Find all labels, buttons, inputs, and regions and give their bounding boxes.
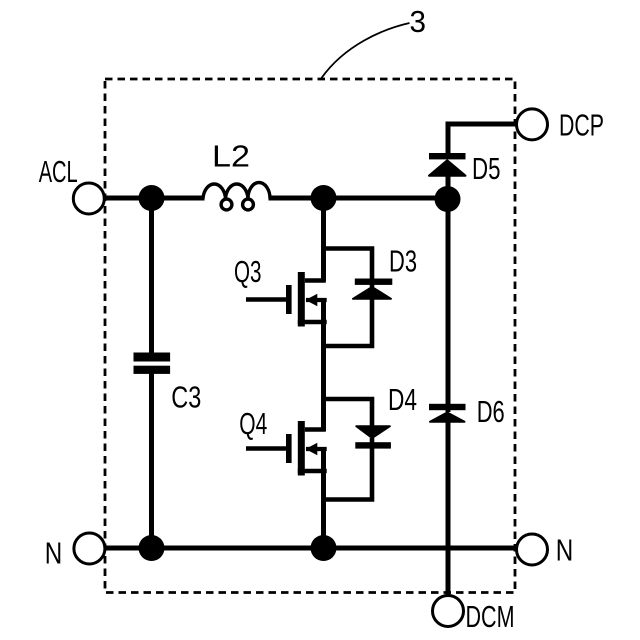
svg-text:N: N xyxy=(45,537,63,571)
svg-text:3: 3 xyxy=(410,5,427,39)
svg-text:D5: D5 xyxy=(472,152,501,186)
wire: Q4 source rail to bottom wire xyxy=(321,449,326,549)
wire: Q3 drain rail xyxy=(321,198,326,281)
capacitor C3 xyxy=(134,353,171,374)
wire: D5 to node C xyxy=(446,175,451,198)
svg-text:Q4: Q4 xyxy=(239,407,267,441)
node D (C3 bottom junction) xyxy=(139,535,165,561)
svg-text:C3: C3 xyxy=(171,381,201,415)
inductor L2 xyxy=(203,183,270,210)
svg-text:L2: L2 xyxy=(212,140,250,174)
wire: node C to D6 xyxy=(446,198,451,412)
diode D3 xyxy=(353,279,392,299)
leader line to label 3 xyxy=(322,23,410,78)
wire: Q3 source to Q4 drain rail xyxy=(321,300,326,432)
diode D4 loop wiring xyxy=(324,399,373,500)
node E (bridge bottom junction) xyxy=(311,535,337,561)
transistor Q3 xyxy=(246,272,327,327)
bottom wire xyxy=(105,546,517,551)
svg-text:DCP: DCP xyxy=(559,109,604,143)
wire: ACL to inductor L2 xyxy=(104,196,205,201)
node C (D5/D6 junction) xyxy=(435,186,461,212)
svg-text:DCM: DCM xyxy=(466,600,515,634)
diode D6 xyxy=(429,404,466,422)
terminal DCM xyxy=(433,596,464,627)
terminal N right xyxy=(517,534,548,565)
terminal DCP xyxy=(517,109,548,140)
wire: C3 to bottom wire xyxy=(149,373,154,548)
diode D4 xyxy=(355,426,391,448)
svg-text:D6: D6 xyxy=(477,395,505,429)
diode D5 xyxy=(429,153,466,176)
wire: DCP corner xyxy=(448,124,517,154)
wire: L2 to node C xyxy=(269,196,449,201)
diode D3 loop wiring xyxy=(324,249,373,347)
terminal ACL xyxy=(73,183,104,214)
svg-text:D3: D3 xyxy=(389,245,417,279)
terminal N left xyxy=(74,533,105,564)
svg-text:D4: D4 xyxy=(388,383,417,417)
node B (bridge top junction) xyxy=(311,185,337,211)
svg-text:N: N xyxy=(556,534,574,568)
wire: D6 to DCM xyxy=(446,422,451,596)
transistor Q4 xyxy=(246,421,327,476)
svg-text:ACL: ACL xyxy=(39,155,78,189)
wire: node A to capacitor C3 xyxy=(149,198,154,354)
svg-text:Q3: Q3 xyxy=(234,255,262,289)
dashed enclosure box 3 xyxy=(105,79,515,593)
node A (C3 top junction) xyxy=(139,185,165,211)
